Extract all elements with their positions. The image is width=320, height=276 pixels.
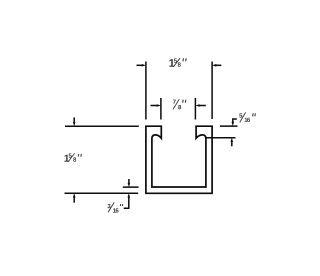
dim C: bottom arrow tick (73, 197, 75, 203)
label: left dimension text 1-5/8" (64, 153, 81, 161)
arrowhead D-up (points up) (128, 193, 131, 197)
dim D: 3/16 inner-bottom extension line (123, 186, 139, 188)
dim A: top 1-5/8 left extension line (145, 62, 147, 120)
label: top dimension text 1-5/8" (169, 58, 186, 67)
dim C: left 1-5/8 top extension line (65, 125, 139, 127)
arrowhead E-up (points up) (231, 138, 234, 142)
arrowhead A-right (points left) (212, 64, 216, 67)
arrowhead B-left (points right) (157, 104, 161, 107)
label: bottom dimension text 3/16" (108, 202, 123, 212)
dim B: right arrow tick (199, 105, 206, 107)
dim A: left arrow tick (137, 64, 143, 66)
dim D: down arrow tick (128, 179, 130, 184)
label: right dimension text 5/16" (239, 112, 255, 122)
arrowhead D-down (points down) (128, 183, 131, 187)
arrowhead C-bottom (points up) (73, 193, 76, 197)
arrowhead A-left (points right) (142, 64, 146, 67)
arrowhead E-topdown (points down) (232, 122, 235, 126)
dim A: right arrow tick (216, 64, 222, 66)
dim E: 5/16 top extension line (220, 125, 238, 127)
dim B: 7/8 left extension line (160, 98, 162, 120)
channel profile (strut channel cross-section) (146, 126, 212, 193)
dim E: top leader elbow (233, 119, 237, 123)
arrowhead C-top (points down) (73, 122, 76, 126)
label: middle dimension text 7/8" (173, 99, 186, 109)
arrowhead B-right (points left) (195, 104, 199, 107)
dim C: left 1-5/8 bottom extension line (65, 192, 139, 194)
dim B: 7/8 right extension line (194, 98, 196, 120)
dim D: up arrow + leader (124, 197, 129, 208)
dim B: left arrow tick (151, 105, 158, 107)
dim C: top arrow tick (73, 117, 75, 122)
dim E: bottom extension line (206, 137, 236, 139)
dim A: top 1-5/8 right extension line (211, 62, 213, 120)
dim E: up arrow tick (231, 142, 233, 147)
